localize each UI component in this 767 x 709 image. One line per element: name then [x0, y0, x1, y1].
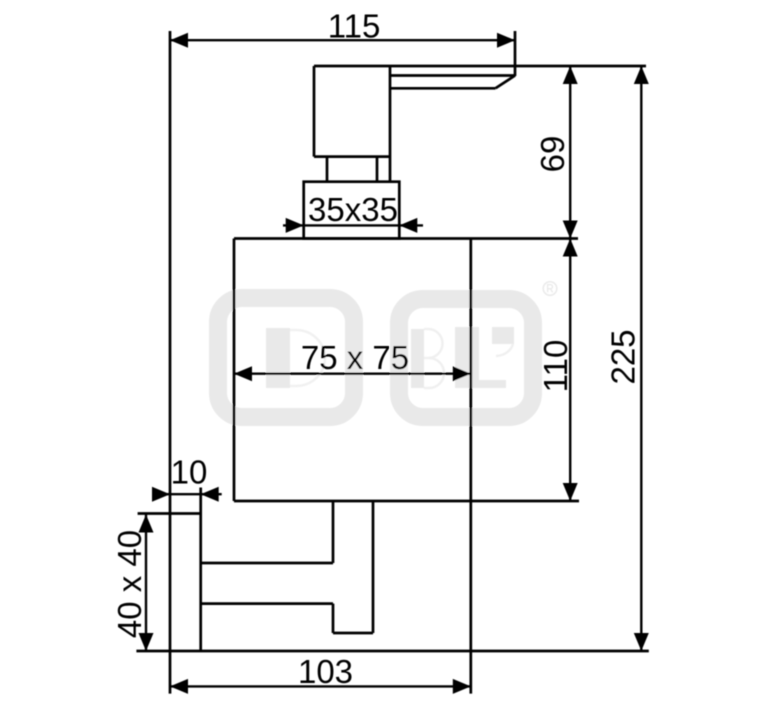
svg-text:35x35: 35x35 [308, 191, 398, 228]
svg-text:103: 103 [298, 653, 353, 690]
svg-text:40 x 40: 40 x 40 [111, 530, 148, 638]
svg-text:115: 115 [328, 8, 381, 45]
svg-text:225: 225 [605, 329, 642, 384]
svg-text:10: 10 [171, 454, 208, 491]
svg-text:75 x 75: 75 x 75 [301, 339, 409, 376]
svg-text:110: 110 [537, 340, 574, 393]
svg-text:69: 69 [534, 136, 571, 173]
